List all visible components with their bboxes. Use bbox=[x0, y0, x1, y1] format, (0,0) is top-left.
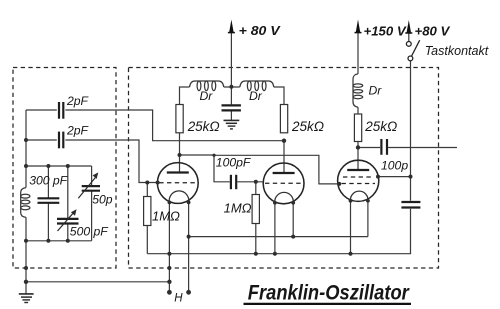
svg-text:25kΩ: 25kΩ bbox=[364, 119, 397, 134]
svg-text:25kΩ: 25kΩ bbox=[291, 119, 324, 134]
svg-text:+ 80 V: + 80 V bbox=[239, 23, 281, 38]
svg-text:100p: 100p bbox=[381, 158, 408, 172]
svg-text:Dr: Dr bbox=[249, 89, 263, 103]
svg-text:1MΩ: 1MΩ bbox=[152, 209, 180, 224]
svg-text:25kΩ: 25kΩ bbox=[187, 119, 220, 134]
svg-text:+80 V: +80 V bbox=[415, 24, 451, 39]
svg-text:+150 V: +150 V bbox=[364, 24, 407, 39]
svg-text:50p: 50p bbox=[92, 192, 113, 206]
svg-text:Dr: Dr bbox=[200, 89, 214, 103]
svg-text:Franklin-Oszillator: Franklin-Oszillator bbox=[248, 282, 411, 305]
svg-text:100pF: 100pF bbox=[216, 156, 252, 170]
svg-text:500 pF: 500 pF bbox=[70, 224, 109, 238]
svg-text:H: H bbox=[174, 292, 183, 304]
svg-text:1MΩ: 1MΩ bbox=[224, 201, 252, 216]
svg-text:Tastkontakt: Tastkontakt bbox=[425, 43, 490, 58]
svg-text:300 pF: 300 pF bbox=[29, 174, 68, 188]
svg-text:2pF: 2pF bbox=[66, 94, 90, 108]
svg-text:Dr: Dr bbox=[369, 84, 383, 98]
svg-text:2pF: 2pF bbox=[66, 123, 90, 137]
